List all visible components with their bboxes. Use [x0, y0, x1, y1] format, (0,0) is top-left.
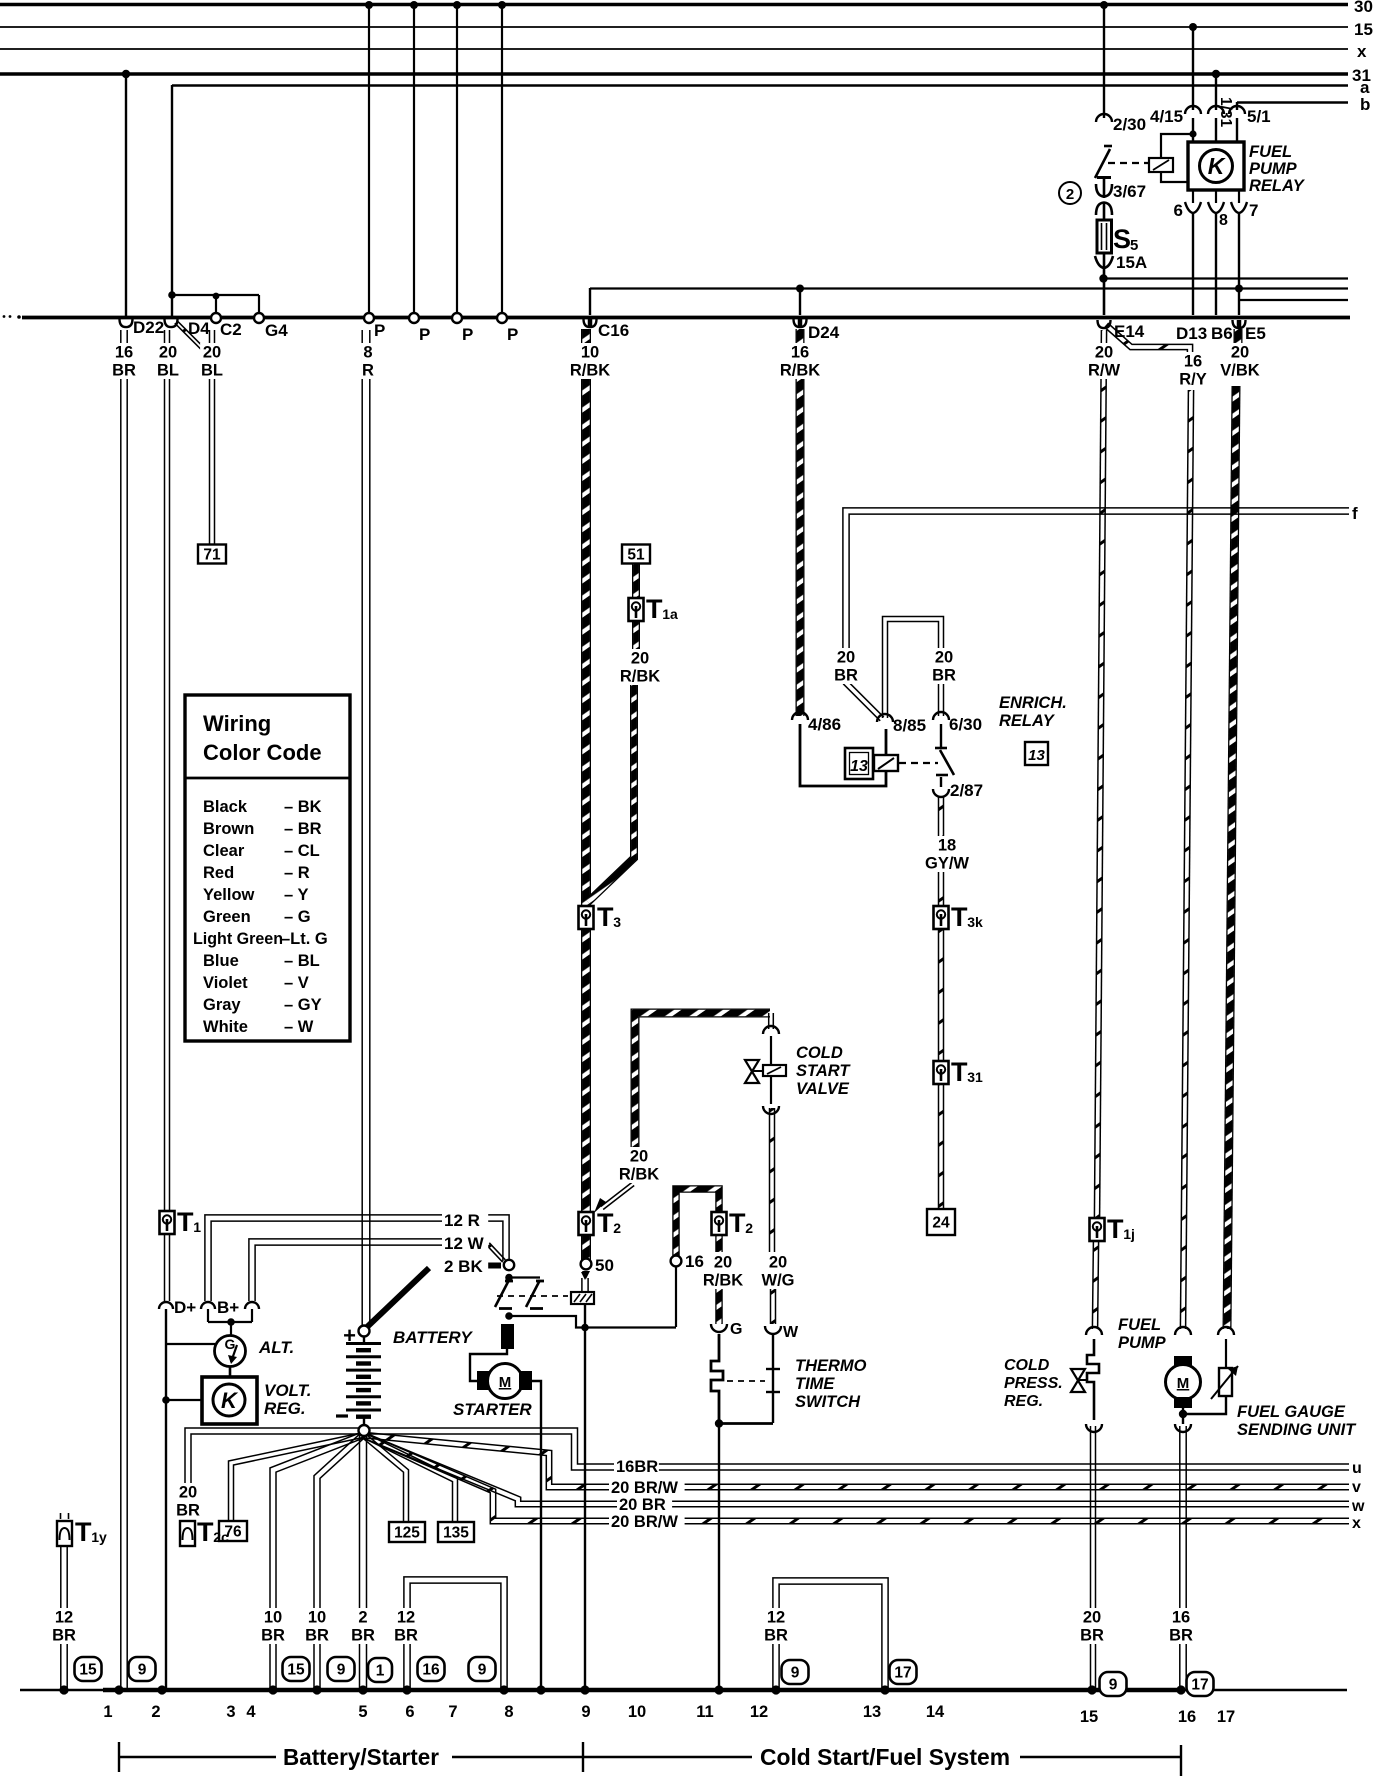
wire D+ down to ground bus	[165, 1309, 167, 1688]
svg-text:13: 13	[1028, 747, 1045, 764]
svg-text:20: 20	[769, 1254, 787, 1272]
wire D4 from line a	[171, 85, 173, 318]
label 20 W/G	[761, 1253, 795, 1290]
svg-text:– BK: – BK	[284, 798, 322, 816]
svg-text:20: 20	[935, 649, 953, 667]
wire T1y to ground bus	[61, 1546, 67, 1688]
svg-text:VOLT.: VOLT.	[264, 1381, 312, 1400]
svg-text:2: 2	[151, 1703, 160, 1721]
connector E5	[1233, 320, 1246, 328]
ignition switch actuator	[571, 1292, 594, 1304]
badge 17 track16	[1187, 1672, 1214, 1696]
label 20 BR cold press	[1080, 1608, 1104, 1645]
svg-text:9: 9	[138, 1662, 147, 1679]
badge 16 track6	[418, 1657, 445, 1681]
svg-text:FUEL: FUEL	[1118, 1316, 1161, 1334]
svg-text:24: 24	[932, 1215, 950, 1232]
wire ground track 3	[270, 1432, 364, 1688]
svg-text:6: 6	[1174, 201, 1183, 220]
label battery minus	[336, 1414, 348, 1417]
svg-text:– G: – G	[284, 908, 311, 926]
node pin7 to feed line	[1235, 285, 1243, 293]
dashed thermo link	[727, 1380, 765, 1382]
svg-text:15: 15	[287, 1662, 305, 1679]
badge 9 track2	[129, 1657, 156, 1681]
wire 20 W/G valve to thermo switch	[770, 1108, 775, 1252]
svg-text:v: v	[1352, 1479, 1361, 1496]
wire 1/31 from line 31	[1215, 74, 1217, 110]
svg-text:13: 13	[863, 1703, 881, 1721]
wire valve drop	[769, 1013, 774, 1029]
badge 1 track5	[368, 1658, 392, 1682]
wire ground track 5	[360, 1434, 367, 1688]
connector below cold press regulator	[1086, 1424, 1102, 1432]
bus left dots	[3, 315, 21, 319]
connector above fuel pump	[1175, 1327, 1191, 1335]
connector to cold start valve	[763, 1026, 779, 1034]
label 10 BR track4	[305, 1608, 329, 1645]
ground bus	[20, 1689, 103, 1692]
wire pin 1/31 into relay	[1215, 118, 1217, 143]
svg-text:–Lt. G: –Lt. G	[281, 930, 328, 948]
svg-text:2: 2	[745, 1220, 753, 1236]
svg-text:4: 4	[246, 1703, 256, 1721]
connector arrow below fuse	[1095, 256, 1113, 268]
connector P2	[409, 313, 419, 323]
wire sending unit to pump ground node	[1225, 1339, 1227, 1368]
connector T2	[579, 1212, 594, 1235]
svg-text:5: 5	[1130, 237, 1138, 254]
svg-text:2/30: 2/30	[1113, 115, 1146, 134]
svg-text:9: 9	[478, 1662, 487, 1679]
svg-text:K: K	[221, 1388, 239, 1413]
wire jumper lower to 6/30	[939, 682, 944, 716]
svg-text:b: b	[1360, 95, 1370, 114]
node volt reg tap	[162, 1396, 170, 1404]
wire ground track 4	[314, 1433, 365, 1688]
svg-text:12: 12	[397, 1609, 415, 1627]
svg-text:16: 16	[1184, 353, 1202, 371]
wire cold press regulator switch	[1087, 1339, 1099, 1420]
node starter feed	[505, 1312, 513, 1320]
leader 12 W diagonal	[487, 1243, 506, 1262]
wire thermo ground joint	[719, 1422, 773, 1425]
svg-text:125: 125	[394, 1525, 420, 1542]
connector P1	[364, 313, 374, 323]
wire T2 to terminal 50	[581, 1235, 591, 1260]
svg-text:3: 3	[613, 914, 621, 930]
svg-text:P: P	[507, 325, 518, 344]
svg-text:Clear: Clear	[203, 842, 245, 860]
wire 12 W to ignition switch	[249, 1239, 486, 1301]
svg-text:1j: 1j	[1123, 1226, 1135, 1242]
wire T1 to D+	[165, 1233, 170, 1301]
connector B+	[201, 1302, 215, 1309]
connector 4/15	[1185, 106, 1201, 114]
relay pin 7 connector	[1238, 190, 1240, 203]
svg-text:ENRICH.: ENRICH.	[999, 694, 1067, 712]
badge 15 track3	[283, 1657, 310, 1681]
wire 20 BL D4 to T1	[165, 330, 170, 1211]
connector T2 thermo leg	[712, 1212, 727, 1235]
wire solenoid to starter	[470, 1349, 507, 1381]
connector 1/31	[1208, 106, 1224, 114]
badge 17 track13	[890, 1660, 917, 1684]
svg-text:BL: BL	[201, 362, 223, 380]
svg-text:3k: 3k	[967, 914, 983, 930]
connector 4/86	[792, 712, 808, 720]
enrich relay contact	[940, 724, 942, 748]
bus line a	[172, 84, 1348, 86]
svg-text:R: R	[362, 362, 374, 380]
svg-text:RELAY: RELAY	[1249, 177, 1306, 195]
svg-text:– W: – W	[284, 1018, 314, 1036]
fuel gauge sending unit resistor	[1211, 1366, 1238, 1399]
svg-text:Gray: Gray	[203, 996, 241, 1014]
wire 4/15 from line 15	[1192, 27, 1194, 110]
svg-text:T: T	[75, 1517, 92, 1547]
svg-text:8: 8	[363, 344, 372, 362]
svg-text:P: P	[462, 325, 473, 344]
svg-text:R/W: R/W	[1088, 362, 1121, 380]
wire T1j to cold press regulator	[1092, 1241, 1098, 1329]
svg-text:Brown: Brown	[203, 820, 254, 838]
wire T31 to box 24	[939, 1084, 944, 1209]
alternator G	[215, 1336, 246, 1367]
svg-text:PUMP: PUMP	[1118, 1334, 1167, 1352]
terminal box 76	[219, 1521, 247, 1541]
svg-text:20: 20	[1231, 344, 1249, 362]
relay K fuel pump relay	[1188, 142, 1244, 190]
connector above sending unit	[1218, 1327, 1234, 1335]
svg-text:Black: Black	[203, 798, 248, 816]
svg-text:4/86: 4/86	[808, 715, 841, 734]
relay coil terminal	[1149, 158, 1173, 172]
svg-text:4/15: 4/15	[1150, 107, 1183, 126]
svg-text:2 BK: 2 BK	[444, 1257, 483, 1276]
wire 4/86 to enrich coil	[800, 724, 886, 786]
label 20 R/BK loop	[617, 1147, 661, 1184]
label 2 BR track5	[351, 1608, 375, 1645]
svg-text:– BR: – BR	[284, 820, 322, 838]
svg-text:Battery/Starter: Battery/Starter	[283, 1744, 439, 1770]
connector 2/30	[1096, 114, 1112, 122]
wire D22 from line 31	[125, 74, 127, 318]
wire relay pin8 to bus connector B6	[1215, 213, 1217, 315]
connector W thermo	[765, 1326, 781, 1334]
svg-text:2: 2	[1066, 186, 1074, 203]
svg-text:18: 18	[938, 837, 956, 855]
svg-text:SWITCH: SWITCH	[795, 1393, 861, 1411]
wire D24 riser	[799, 288, 801, 315]
svg-text:C2: C2	[220, 320, 242, 339]
svg-text:20: 20	[630, 1148, 648, 1166]
wire P1 from line 30 to main bus	[368, 4, 370, 314]
label 20 V/BK	[1218, 343, 1262, 380]
svg-text:RELAY: RELAY	[999, 712, 1056, 730]
svg-text:20 BR: 20 BR	[619, 1496, 666, 1514]
label 8 R	[361, 343, 375, 380]
wire 12 R B+ to ignition switch	[205, 1215, 509, 1301]
relay pin 8 connector	[1215, 190, 1217, 203]
node coil tap	[1189, 130, 1196, 137]
svg-text:– CL: – CL	[284, 842, 320, 860]
svg-text:B+: B+	[217, 1298, 239, 1317]
svg-text:T: T	[1107, 1214, 1124, 1244]
wire ground run w 20 BR	[362, 1433, 1349, 1507]
svg-text:50: 50	[595, 1256, 614, 1275]
svg-text:15: 15	[79, 1662, 97, 1679]
terminal box 71	[198, 545, 226, 564]
svg-text:16: 16	[685, 1252, 704, 1271]
svg-text:VALVE: VALVE	[796, 1080, 850, 1098]
connector C16	[584, 319, 597, 327]
bracket Cold Start/Fuel System	[584, 1756, 752, 1758]
wire starter to ground bus	[532, 1381, 541, 1688]
svg-text:P: P	[419, 325, 430, 344]
svg-text:E14: E14	[1114, 322, 1145, 341]
battery positive terminal	[359, 1326, 370, 1337]
badge 9 track15	[1100, 1672, 1127, 1696]
wire C16 riser	[589, 288, 591, 315]
label 16BR run	[614, 1458, 659, 1476]
svg-text:D+: D+	[174, 1298, 196, 1317]
svg-text:20: 20	[159, 344, 177, 362]
terminal box 24	[927, 1209, 955, 1235]
wire T3 to T2	[581, 929, 591, 1212]
wire P4 from line 30 to main bus	[501, 4, 503, 314]
svg-text:REG.: REG.	[264, 1399, 306, 1418]
svg-text:2/87: 2/87	[950, 781, 983, 800]
svg-text:15A: 15A	[1116, 253, 1147, 272]
svg-text:FUEL GAUGE: FUEL GAUGE	[1237, 1403, 1346, 1421]
wire relay jumper 8/85 to 6/30	[883, 617, 944, 719]
relay pin 6 connector	[1192, 190, 1194, 203]
label 12 BR loop2	[764, 1608, 788, 1645]
label T1	[177, 1207, 201, 1237]
svg-text:16: 16	[115, 344, 133, 362]
wire relay coil loop	[1161, 134, 1193, 182]
label 12 BR T1y	[52, 1608, 76, 1645]
wire feed line C16 D24 E5	[590, 287, 1348, 289]
wire ground loop tracks 6-8	[404, 1577, 507, 1688]
label T1y	[75, 1517, 107, 1547]
svg-text:M: M	[1177, 1375, 1190, 1392]
bus line 15	[0, 26, 1348, 28]
connector 8/85	[877, 714, 893, 722]
svg-text:10: 10	[264, 1609, 282, 1627]
svg-text:BR: BR	[112, 362, 136, 380]
svg-text:R/BK: R/BK	[570, 362, 610, 380]
connector T3k	[934, 906, 949, 929]
svg-text:3/67: 3/67	[1113, 182, 1146, 201]
wire 20 V/BK E5 stub	[1234, 329, 1243, 350]
svg-text:15: 15	[1354, 20, 1373, 39]
terminal box 51	[622, 545, 650, 564]
svg-text:9: 9	[337, 1662, 346, 1679]
wire 20 R/BK branch 51 to T1a	[632, 563, 640, 598]
svg-text:V/BK: V/BK	[1220, 362, 1260, 380]
svg-text:17: 17	[1191, 1677, 1208, 1694]
thermo time switch heater	[772, 1334, 774, 1423]
svg-text:S: S	[1113, 224, 1131, 254]
node junction a-wire	[168, 291, 176, 299]
motor fuel pump	[1166, 1356, 1201, 1408]
main interior bus	[22, 316, 1350, 320]
svg-text:9: 9	[581, 1703, 590, 1721]
node fuse output	[1099, 274, 1107, 282]
ground bus junction dots	[59, 1685, 1185, 1694]
wire B+ stubs to alternator	[208, 1309, 252, 1322]
connector T1y	[57, 1513, 72, 1546]
connector T2c	[180, 1513, 195, 1546]
svg-text:135: 135	[443, 1525, 469, 1542]
wire ground to box 125	[361, 1433, 408, 1521]
label 16 R/BK	[778, 343, 822, 380]
svg-text:D22: D22	[133, 318, 164, 337]
label 2 BK	[442, 1257, 488, 1276]
svg-text:Violet: Violet	[203, 974, 248, 992]
svg-text:1/31: 1/31	[1217, 97, 1234, 128]
wire ground to box 135	[362, 1433, 458, 1521]
svg-text:T: T	[597, 902, 614, 932]
wire 20 R/W E14 to T1j	[1094, 330, 1106, 1218]
svg-text:6/30: 6/30	[949, 715, 982, 734]
wire P2 from line 30 to main bus	[413, 4, 415, 314]
label 20 BR left leg	[834, 648, 858, 685]
svg-text:White: White	[203, 1018, 248, 1036]
svg-text:10: 10	[308, 1609, 326, 1627]
wire pin 5/1 into relay	[1236, 118, 1238, 143]
fuse S5	[1097, 220, 1112, 253]
svg-text:BR: BR	[261, 1627, 285, 1645]
svg-text:BR: BR	[932, 667, 956, 685]
wire 20 W/G lower	[771, 1288, 776, 1324]
svg-text:C16: C16	[598, 321, 629, 340]
wire 20 V/BK to sending unit	[1227, 386, 1236, 1329]
svg-text:Wiring: Wiring	[203, 711, 271, 736]
wire pin 4/15 into relay	[1192, 118, 1194, 143]
starter motor M	[477, 1364, 532, 1399]
svg-text:6: 6	[405, 1703, 414, 1721]
wire 10 R/BK C16 to T3	[581, 329, 591, 907]
battery negative terminal	[359, 1425, 370, 1436]
connector G4	[254, 313, 264, 323]
bus line 31	[0, 72, 1348, 76]
svg-text:SENDING UNIT: SENDING UNIT	[1237, 1421, 1357, 1439]
svg-text:G: G	[730, 1321, 742, 1338]
wire 20 BL to junction box 71	[210, 330, 215, 545]
svg-text:w: w	[1351, 1498, 1365, 1515]
svg-text:1a: 1a	[662, 606, 678, 622]
svg-text:16BR: 16BR	[616, 1458, 658, 1476]
svg-text:W/G: W/G	[762, 1272, 795, 1290]
svg-text:12: 12	[767, 1609, 785, 1627]
svg-text:1: 1	[103, 1703, 112, 1721]
svg-text:GY/W: GY/W	[925, 855, 969, 873]
connector arrow above fuse	[1096, 203, 1112, 216]
wire 16 BR D22 to ground bus	[121, 330, 127, 1688]
svg-text:D4: D4	[188, 319, 210, 338]
label T3	[597, 902, 621, 932]
svg-text:STARTER: STARTER	[453, 1400, 532, 1419]
wire ground loop tracks 12-13	[773, 1578, 888, 1688]
wire 20 R/BK to thermo G	[715, 1288, 723, 1324]
svg-text:R/BK: R/BK	[619, 1166, 659, 1184]
wire 16 R/BK D24 to 4/86	[796, 329, 805, 716]
wire 20 BR from line f to 8/85 upper	[843, 508, 1349, 650]
wire relay pin7 to bus connector E5	[1238, 213, 1240, 315]
connector E14	[1098, 320, 1111, 328]
wire 16 R/Y from E14	[1104, 323, 1192, 355]
svg-text:START: START	[796, 1062, 851, 1080]
svg-text:TIME: TIME	[795, 1375, 835, 1393]
wiring color code legend	[185, 695, 350, 1041]
label T2 thermo	[729, 1208, 753, 1238]
wire 2/30 from line 30	[1103, 4, 1105, 118]
svg-text:16: 16	[1172, 1609, 1190, 1627]
wire 50 to actuator	[581, 1272, 589, 1280]
wire ground main run to 16BR	[185, 1428, 1349, 1518]
terminal box 125	[389, 1522, 425, 1542]
svg-text:R/Y: R/Y	[1179, 371, 1207, 389]
wire T3k to T31	[939, 929, 944, 1061]
bus line x	[0, 48, 1348, 50]
wire 20 R/BK branch to T3	[588, 680, 634, 902]
label 16 R/Y	[1176, 352, 1210, 389]
svg-text:REG.: REG.	[1004, 1393, 1043, 1410]
wire feed branch right of pin7	[1239, 299, 1348, 301]
svg-text:20 BR/W: 20 BR/W	[611, 1513, 678, 1531]
node 50 line junction	[581, 1324, 589, 1332]
wire 8 R P to battery positive	[362, 330, 370, 1326]
svg-text:+: +	[343, 1323, 356, 1348]
wire branch to C2 and G4	[172, 295, 259, 314]
svg-text:2c: 2c	[213, 1529, 229, 1545]
wire 18 GY/W to T3k	[939, 872, 944, 907]
svg-text:51: 51	[627, 547, 645, 564]
svg-text:Red: Red	[203, 864, 234, 882]
svg-text:FUEL: FUEL	[1249, 143, 1292, 161]
cold start valve	[745, 1060, 786, 1083]
wire D+ branch to alternator G	[166, 1343, 215, 1345]
label T3k	[951, 902, 983, 932]
connector P3	[452, 313, 462, 323]
leader from D4 to 20 BL label	[175, 321, 205, 351]
wire thermo to ground bus	[718, 1423, 720, 1688]
bus line 30	[0, 3, 1348, 6]
wire T1a stub	[632, 621, 640, 650]
svg-text:Yellow: Yellow	[203, 886, 255, 904]
svg-text:– Y: – Y	[284, 886, 308, 904]
label 10 R/BK	[568, 343, 612, 380]
enrich relay coil	[874, 755, 898, 771]
svg-text:R/BK: R/BK	[620, 668, 660, 686]
svg-text:20: 20	[203, 344, 221, 362]
svg-text:– GY: – GY	[284, 996, 322, 1014]
wire switch to 50 line	[509, 1316, 676, 1328]
badge 9 track4	[328, 1657, 355, 1681]
svg-text:15: 15	[1080, 1708, 1098, 1726]
svg-text:20: 20	[837, 649, 855, 667]
svg-text:T: T	[177, 1207, 194, 1237]
label T31	[951, 1057, 983, 1087]
label 12 W	[442, 1234, 488, 1253]
label 20 BR/W v	[609, 1479, 685, 1497]
thermo time switch bimetal	[711, 1334, 723, 1423]
svg-text:BR: BR	[764, 1627, 788, 1645]
svg-text:PRESS.: PRESS.	[1004, 1375, 1063, 1392]
